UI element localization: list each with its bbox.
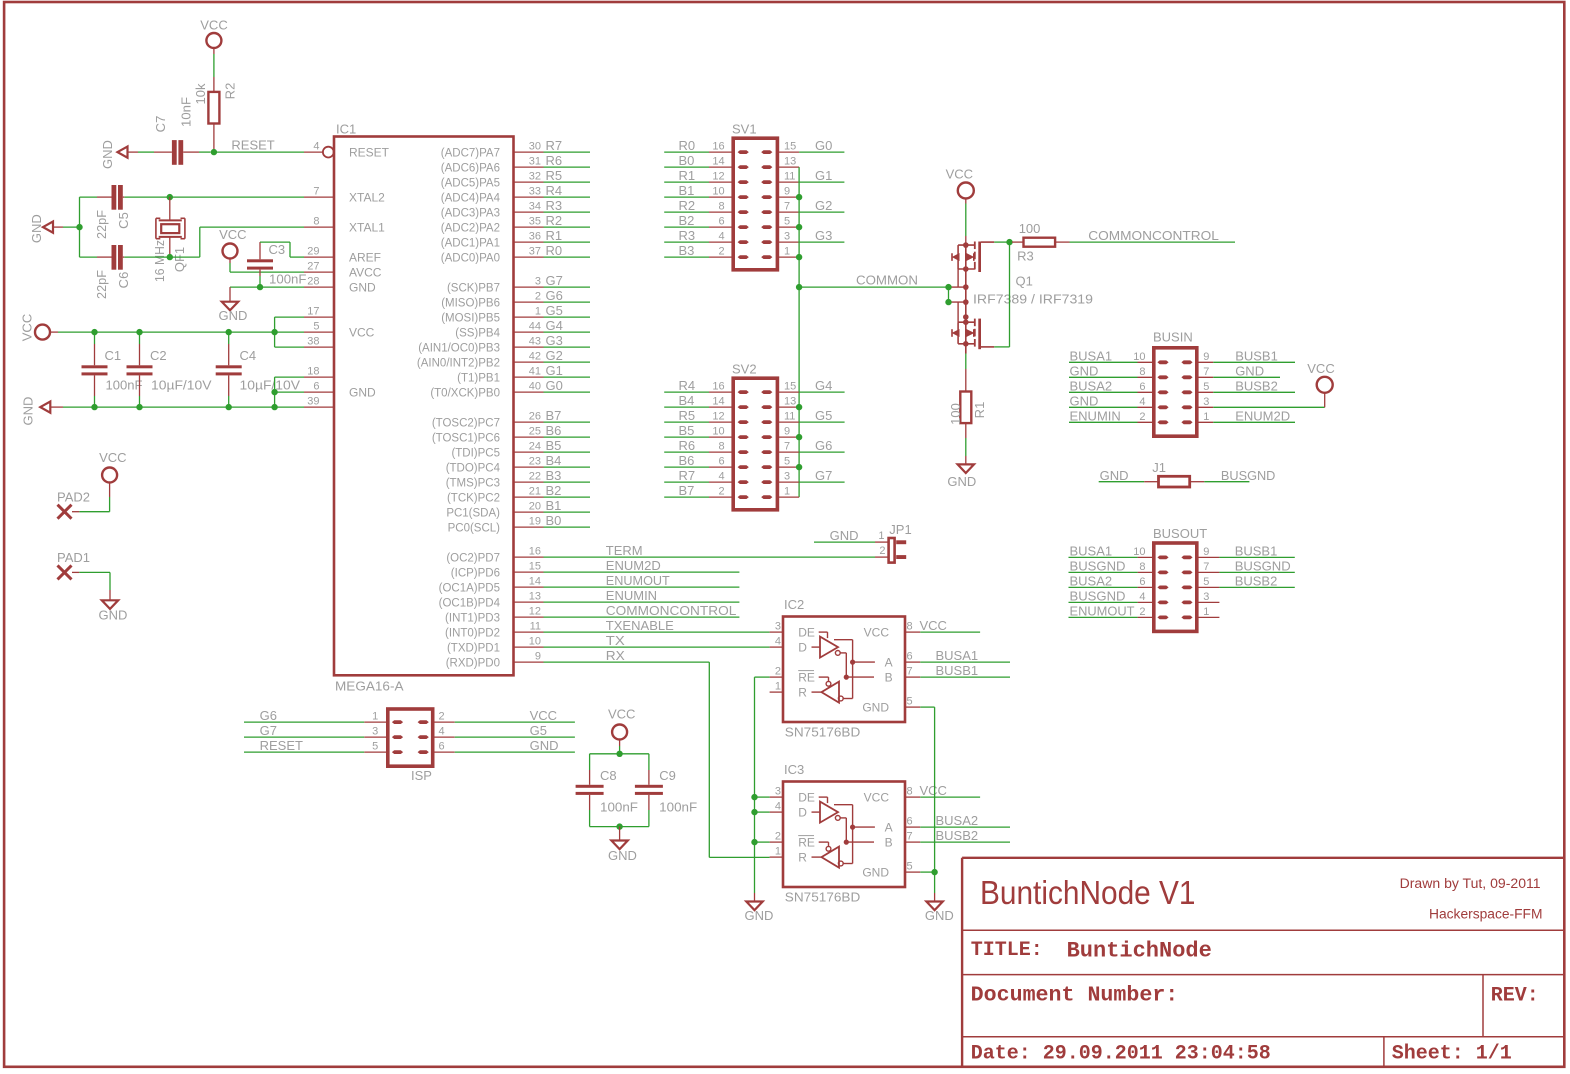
svg-text:10: 10 [712, 426, 724, 438]
IC3 pin 6 A [905, 816, 920, 828]
SV1 pin 14 net B0 [664, 153, 733, 168]
svg-text:6: 6 [1139, 381, 1145, 393]
BUSIN pin 10 net BUSA1 [1069, 348, 1154, 363]
wire net R2 [544, 213, 591, 228]
svg-text:11: 11 [784, 411, 795, 423]
IC1 pin 37 (ADC0)PA0 net R0 [441, 246, 544, 265]
wire net XTAL1 [124, 227, 304, 257]
svg-text:PAD1: PAD1 [57, 550, 90, 565]
SV1 pin 11 [777, 171, 799, 183]
node Q1 gate junction lower [945, 299, 951, 305]
BUSOUT pin 6 net BUSA2 [1069, 573, 1154, 588]
svg-text:R: R [798, 850, 807, 864]
IC1 pin 11 (INT0)PD2 net TXENABLE [445, 621, 543, 640]
power VCC symbol at BUSIN [1307, 361, 1334, 393]
svg-text:G4: G4 [546, 318, 563, 333]
svg-text:B2: B2 [679, 213, 695, 228]
svg-text:VCC: VCC [99, 450, 126, 465]
svg-text:IRF7389 / IRF7319: IRF7389 / IRF7319 [973, 292, 1093, 307]
svg-text:VCC: VCC [530, 708, 557, 723]
svg-text:4: 4 [1139, 396, 1145, 408]
svg-text:Sheet: 1/1: Sheet: 1/1 [1392, 1043, 1512, 1066]
svg-text:(INT0)PD2: (INT0)PD2 [445, 627, 500, 639]
IC3 receiver triangle [812, 842, 844, 868]
wire net GND to J1 pin 1 [1099, 468, 1159, 483]
capacitor C8 100nF [576, 768, 638, 827]
title text Hackerspace-FFM [1429, 907, 1543, 922]
svg-text:G5: G5 [546, 303, 563, 318]
wire net GND rail [63, 406, 304, 408]
svg-text:(TXD)PD1: (TXD)PD1 [447, 642, 500, 654]
BUSIN pin 9 net BUSB1 [1197, 348, 1295, 363]
svg-text:100nF: 100nF [269, 272, 307, 287]
svg-text:4: 4 [1139, 591, 1145, 603]
IC2 pin 2 RE [770, 666, 815, 685]
svg-text:(ADC3)PA3: (ADC3)PA3 [441, 207, 500, 219]
wire Q1 drain link [965, 269, 967, 322]
svg-text:A: A [885, 655, 893, 669]
svg-text:R3: R3 [1017, 248, 1034, 263]
svg-text:18: 18 [307, 366, 319, 378]
svg-text:10: 10 [529, 636, 541, 648]
svg-text:6: 6 [907, 651, 913, 663]
title text Date [971, 1043, 1271, 1066]
BUSIN pin 7 net GND [1197, 363, 1280, 378]
IC1 pin 9 (RXD)PD0 net RX [446, 651, 544, 670]
wire net R5 [544, 168, 591, 183]
title block frame [962, 858, 1564, 1067]
svg-text:3: 3 [784, 231, 790, 243]
power VCC symbol at C3 [219, 227, 246, 259]
svg-text:12: 12 [529, 606, 541, 618]
svg-text:GND: GND [745, 908, 774, 923]
transistor Q1 P-FET upper [952, 242, 994, 273]
svg-text:VCC: VCC [1307, 361, 1334, 376]
svg-text:GND: GND [947, 474, 976, 489]
svg-text:COMMONCONTROL: COMMONCONTROL [1088, 228, 1219, 243]
wire net GND pin 28 [230, 287, 304, 301]
resistor R1 100 [948, 392, 987, 425]
wire net COMMONCONTROL right [1070, 228, 1236, 243]
svg-text:6: 6 [313, 381, 319, 393]
svg-text:B5: B5 [679, 423, 695, 438]
svg-text:TITLE:: TITLE: [971, 939, 1043, 962]
svg-text:(ADC2)PA2: (ADC2)PA2 [441, 222, 500, 234]
svg-text:GND: GND [219, 308, 248, 323]
wire R1 to GND [965, 423, 967, 464]
SV1 pin 16 net R0 [664, 138, 733, 153]
svg-text:VCC: VCC [920, 783, 947, 798]
node VCC junctions [91, 329, 277, 335]
svg-text:C1: C1 [105, 348, 122, 363]
IC3 pin 3 DE [770, 786, 815, 805]
svg-text:RESET: RESET [349, 145, 390, 159]
svg-text:DE: DE [798, 790, 815, 804]
svg-text:5: 5 [313, 321, 319, 333]
svg-text:(ADC1)PA1: (ADC1)PA1 [441, 237, 500, 249]
svg-text:SV2: SV2 [732, 362, 757, 377]
BUSIN pin 3 [1197, 396, 1214, 408]
svg-text:GND: GND [29, 214, 44, 243]
svg-text:XTAL2: XTAL2 [349, 190, 385, 204]
IC2 pin 8 VCC [864, 621, 921, 640]
svg-text:B4: B4 [679, 393, 695, 408]
svg-text:G0: G0 [815, 138, 832, 153]
svg-text:36: 36 [529, 231, 541, 243]
wire net G1 [544, 363, 591, 378]
capacitor C5 22pF [80, 185, 132, 239]
svg-text:3: 3 [372, 726, 378, 738]
svg-text:R: R [798, 685, 807, 699]
SV1 pin 2 net B3 [664, 243, 733, 258]
BUSIN pin 8 net GND [1069, 363, 1154, 378]
svg-text:13: 13 [784, 156, 796, 168]
wire VCC to Q1 source [965, 199, 967, 246]
IC1 pin 14 (OC1A)PD5 net ENUMOUT [439, 576, 544, 595]
ground GND at crystal [29, 214, 63, 243]
wire net BUSA1 [920, 648, 1010, 663]
power VCC symbol at C8 [608, 707, 635, 740]
SV2 pin 6 net B6 [664, 453, 733, 468]
IC1 pin 39 [304, 396, 334, 408]
svg-text:32: 32 [529, 171, 541, 183]
node GND junctions [91, 389, 277, 410]
IC1 pin 12 (INT1)PD3 net COMMONCONTROL [445, 606, 543, 625]
power VCC symbol left rail [20, 314, 51, 341]
SV2 pin 1 [777, 486, 799, 498]
svg-text:JP1: JP1 [889, 522, 911, 537]
svg-text:(T1)PB1: (T1)PB1 [457, 372, 500, 384]
wire net RX [544, 648, 710, 663]
svg-text:G2: G2 [815, 198, 832, 213]
svg-text:8: 8 [1139, 561, 1145, 573]
svg-text:(SCK)PB7: (SCK)PB7 [447, 282, 500, 294]
capacitor C3 100nF [247, 242, 307, 287]
svg-text:40: 40 [529, 381, 541, 393]
IC2 pin 4 D [770, 636, 808, 655]
svg-text:10nF: 10nF [179, 97, 194, 127]
wire net TX [544, 633, 770, 648]
svg-text:39: 39 [307, 396, 319, 408]
svg-text:4: 4 [718, 471, 724, 483]
svg-text:31: 31 [529, 156, 541, 168]
svg-text:3: 3 [1203, 591, 1209, 603]
node COMMON junctions SV1 [796, 194, 802, 260]
svg-text:R2: R2 [679, 198, 696, 213]
svg-text:RESET: RESET [260, 738, 303, 753]
svg-text:8: 8 [718, 441, 724, 453]
svg-text:2: 2 [718, 246, 724, 258]
svg-text:B: B [885, 835, 893, 849]
IC1 pin 8 XTAL1 [304, 216, 385, 235]
svg-text:B3: B3 [679, 243, 695, 258]
svg-text:1: 1 [372, 711, 378, 723]
svg-text:17: 17 [307, 306, 319, 318]
svg-text:(TOSC2)PC7: (TOSC2)PC7 [432, 417, 500, 429]
node XTAL2 junction [167, 194, 173, 200]
svg-text:8: 8 [313, 216, 319, 228]
svg-text:GND: GND [862, 700, 889, 714]
capacitor C7 10nF [153, 97, 211, 165]
svg-text:TERM: TERM [606, 543, 643, 558]
IC1 pin 18 [304, 366, 334, 378]
svg-text:7: 7 [784, 201, 790, 213]
svg-text:15: 15 [784, 141, 796, 153]
svg-text:6: 6 [439, 741, 445, 753]
ground GND below R1 [947, 464, 976, 489]
capacitor C2 10uF/10V [127, 332, 212, 407]
IC1 pin 4 RESET [304, 141, 390, 160]
IC1 pin 27 AVCC [304, 261, 382, 280]
wire VCC to C8 C9 rail [619, 740, 621, 754]
IC1 pin 29 AREF [304, 246, 381, 265]
IC1 pin 33 (ADC4)PA4 net R4 [441, 186, 544, 205]
wire PAD1 to GND [72, 572, 110, 600]
ISP pin 6 net GND [433, 738, 575, 753]
svg-text:R2: R2 [223, 83, 238, 100]
svg-text:R3: R3 [546, 198, 563, 213]
SV2 pin 9 [777, 426, 799, 438]
svg-text:16: 16 [712, 381, 724, 393]
SV1 pin 9 [777, 186, 799, 198]
IC1 pin 7 XTAL2 [304, 186, 385, 205]
svg-text:B1: B1 [546, 498, 562, 513]
wire net B1 [544, 498, 591, 513]
svg-text:(TCK)PC2: (TCK)PC2 [447, 492, 500, 504]
wire net G2 [544, 348, 591, 363]
svg-text:G0: G0 [546, 378, 563, 393]
IC2 driver triangle [812, 632, 841, 658]
svg-text:15: 15 [784, 381, 796, 393]
wire net ENUM2D [544, 558, 740, 573]
svg-text:GND: GND [349, 280, 376, 294]
IC IC1 MEGA16-A body [334, 122, 514, 694]
svg-text:R1: R1 [679, 168, 696, 183]
SV1 pin 4 net R3 [664, 228, 733, 243]
svg-text:3: 3 [775, 786, 781, 798]
ground GND at PAD1 [99, 600, 128, 622]
svg-text:R0: R0 [546, 243, 563, 258]
SV2 pin 13 [777, 396, 799, 408]
svg-text:BUSGND: BUSGND [1221, 468, 1276, 483]
svg-text:14: 14 [529, 576, 541, 588]
wire net ENUMOUT [544, 573, 740, 588]
node C8 bottom junction [616, 823, 622, 829]
svg-text:8: 8 [907, 786, 913, 798]
IC3 pin 2 RE [770, 831, 815, 850]
svg-text:2: 2 [1139, 411, 1145, 423]
wire net R6 [544, 153, 591, 168]
svg-text:3: 3 [784, 471, 790, 483]
svg-text:8: 8 [718, 201, 724, 213]
svg-text:(MOSI)PB5: (MOSI)PB5 [441, 312, 500, 324]
wire net RESET [214, 138, 304, 153]
wire net VCC at IC2 pin 8 [920, 618, 981, 633]
BUSOUT pin 7 net BUSGND [1197, 558, 1295, 573]
svg-text:BUSGND: BUSGND [1070, 588, 1126, 603]
wire net B7 [544, 408, 591, 423]
IC1 pin 23 (TDO)PC4 net B4 [446, 456, 544, 475]
svg-text:D: D [798, 805, 807, 819]
title text Sheet [1392, 1043, 1512, 1066]
IC1 pin 24 (TDI)PC5 net B5 [451, 441, 543, 460]
IC3 driver triangle [812, 797, 841, 823]
wire VCC to R2 [213, 48, 215, 92]
svg-text:16 MHz: 16 MHz [152, 240, 167, 282]
svg-text:B6: B6 [546, 423, 562, 438]
BUSIN pin 6 net BUSA2 [1069, 378, 1154, 393]
svg-text:3: 3 [1203, 396, 1209, 408]
ISP pin 4 net G5 [433, 723, 575, 738]
svg-text:B6: B6 [679, 453, 695, 468]
svg-text:6: 6 [718, 456, 724, 468]
BUSOUT pin 9 net BUSB1 [1197, 543, 1295, 558]
svg-text:100: 100 [948, 403, 963, 425]
BUSIN pin 5 net BUSB2 [1197, 378, 1295, 393]
IC2 pin 1 R [770, 681, 808, 700]
svg-text:10k: 10k [193, 83, 208, 104]
svg-text:ENUM2D: ENUM2D [1235, 408, 1290, 423]
svg-text:R6: R6 [546, 153, 563, 168]
svg-text:D: D [798, 640, 807, 654]
IC1 pin 1 (MOSI)PB5 net G5 [441, 306, 543, 325]
connector SV2 body [732, 362, 777, 510]
svg-text:BUSB2: BUSB2 [1235, 378, 1278, 393]
svg-text:VCC: VCC [864, 790, 890, 804]
svg-text:(INT1)PD3: (INT1)PD3 [445, 612, 500, 624]
svg-text:RE: RE [798, 835, 815, 849]
svg-text:2: 2 [879, 545, 885, 557]
svg-text:44: 44 [529, 321, 541, 333]
SV2 pin 12 net R5 [664, 408, 733, 423]
svg-text:TX: TX [606, 633, 625, 648]
SV2 pin 14 net B4 [664, 393, 733, 408]
IC2 pin 7 B [905, 666, 920, 678]
SV2 pin 2 net B7 [664, 483, 733, 498]
svg-text:2: 2 [439, 711, 445, 723]
wire Q1 gate lower [949, 287, 966, 322]
SV2 pin 4 net R7 [664, 468, 733, 483]
svg-text:A: A [885, 820, 893, 834]
node COMMON junctions SV2 [796, 404, 802, 470]
wire net R1 [544, 228, 591, 243]
svg-text:22: 22 [529, 471, 541, 483]
svg-text:2: 2 [775, 831, 781, 843]
BUSOUT pin 5 net BUSB2 [1197, 573, 1295, 588]
svg-text:9: 9 [535, 651, 541, 663]
svg-text:(ADC5)PA5: (ADC5)PA5 [441, 177, 500, 189]
svg-text:1: 1 [784, 486, 790, 498]
svg-text:GND: GND [100, 140, 115, 169]
svg-text:G6: G6 [546, 288, 563, 303]
svg-text:B0: B0 [679, 153, 695, 168]
svg-text:(TDO)PC4: (TDO)PC4 [446, 462, 501, 474]
svg-text:11: 11 [530, 621, 541, 633]
ISP pin 3 net G7 [244, 723, 388, 738]
svg-text:26: 26 [529, 411, 541, 423]
wire to GND below C8 [619, 827, 621, 841]
wire net R3 [544, 198, 591, 213]
svg-text:R6: R6 [679, 438, 696, 453]
wire net G6 [544, 288, 591, 303]
svg-text:12: 12 [712, 171, 724, 183]
IC1 pin 34 (ADC3)PA3 net R3 [441, 201, 544, 220]
svg-text:REV:: REV: [1491, 985, 1539, 1008]
SV2 pin 15 [777, 381, 799, 393]
svg-text:G5: G5 [530, 723, 547, 738]
title text Document Number [971, 985, 1179, 1008]
SV2 pin 5 [777, 456, 799, 468]
wire VCC to AVCC pin 27 [230, 259, 304, 273]
svg-text:5: 5 [372, 741, 378, 753]
svg-text:20: 20 [529, 501, 541, 513]
node RESET junction [211, 149, 217, 155]
wire IC2 pin 5 to GND [920, 706, 934, 708]
svg-text:VCC: VCC [864, 625, 890, 639]
IC2 pin 3 DE [770, 621, 815, 640]
svg-text:2: 2 [775, 666, 781, 678]
wire net G7 [799, 468, 845, 483]
svg-text:R2: R2 [546, 213, 563, 228]
svg-text:6: 6 [907, 816, 913, 828]
svg-text:R5: R5 [679, 408, 696, 423]
wire net R7 [544, 138, 591, 153]
svg-text:1: 1 [775, 681, 781, 693]
svg-text:34: 34 [529, 201, 541, 213]
svg-text:GND: GND [1100, 468, 1129, 483]
wire net XTAL2 [124, 196, 304, 198]
jumper J1 [1152, 460, 1190, 487]
wire net G0 [544, 378, 591, 393]
IC1 pin 40 (T0/XCK)PB0 net G0 [430, 381, 543, 400]
wire net G7 [544, 273, 591, 288]
svg-text:RX: RX [606, 648, 625, 663]
IC1 pin 25 (TOSC1)PC6 net B6 [432, 426, 544, 445]
wire net VCC at IC3 pin 8 [920, 783, 981, 798]
power VCC symbol at Q1 [946, 167, 974, 199]
BUSOUT pin 10 net BUSA1 [1069, 543, 1154, 558]
svg-text:G2: G2 [546, 348, 563, 363]
SV1 pin 1 [777, 246, 799, 258]
svg-text:C3: C3 [269, 242, 286, 257]
svg-text:GND: GND [349, 385, 376, 399]
BUSOUT pin 2 net ENUMOUT [1069, 603, 1154, 618]
svg-text:BUSA1: BUSA1 [1070, 543, 1113, 558]
IC1 pin 44 (SS)PB4 net G4 [455, 321, 543, 340]
node C8 rail junction [616, 751, 622, 757]
IC1 pin 22 (TMS)PC3 net B3 [446, 471, 544, 490]
svg-text:9: 9 [1203, 351, 1209, 363]
resistor R3 100 [1012, 221, 1070, 263]
svg-text:(SS)PB4: (SS)PB4 [455, 327, 500, 339]
svg-text:1: 1 [878, 530, 884, 542]
ISP pin 1 net G6 [244, 708, 388, 723]
svg-text:GND: GND [1235, 363, 1264, 378]
svg-text:B: B [885, 670, 893, 684]
SV1 pin 12 net R1 [664, 168, 733, 183]
svg-text:BUSA1: BUSA1 [936, 648, 979, 663]
svg-text:BUSB1: BUSB1 [1235, 348, 1278, 363]
svg-text:VCC: VCC [946, 167, 973, 182]
IC1 pin 13 (OC1B)PD4 net ENUMIN [439, 591, 544, 610]
svg-text:R1: R1 [972, 402, 987, 419]
IC1 pin 42 (AIN0/INT2)PB2 net G2 [417, 351, 544, 370]
svg-text:100nF: 100nF [600, 800, 638, 815]
SV1 pin 7 [777, 201, 799, 213]
svg-text:QF1: QF1 [172, 247, 187, 272]
IC1 pin 26 (TOSC2)PC7 net B7 [432, 411, 544, 430]
wire net BUSB2 [920, 828, 1010, 843]
